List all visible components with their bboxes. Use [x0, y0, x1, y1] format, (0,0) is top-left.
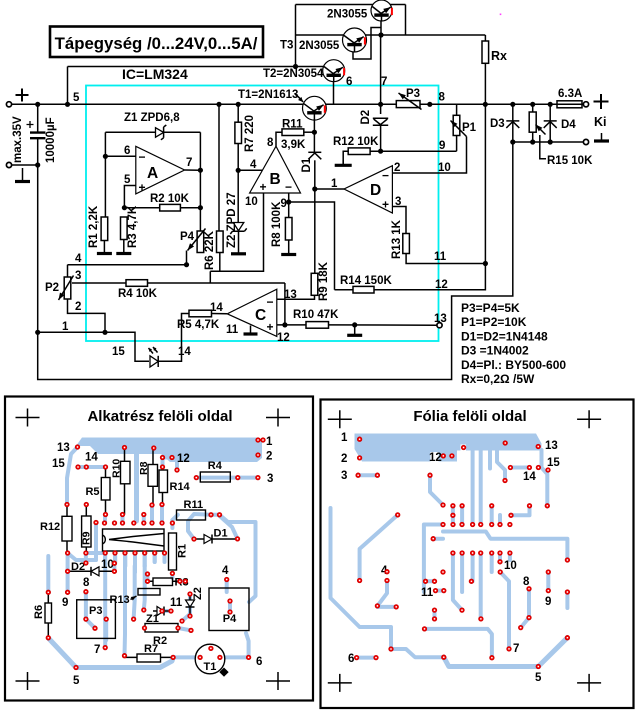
- trace: [490, 553, 494, 572]
- svg-text:1: 1: [331, 178, 338, 190]
- PCB resistor R12: [66, 505, 68, 554]
- svg-text:R2 10K: R2 10K: [150, 193, 190, 205]
- pad: [498, 522, 502, 526]
- wire: [405, 5, 407, 36]
- resistor R4 10K: [126, 280, 148, 287]
- pad: [527, 465, 531, 469]
- resistor R6 22K: [217, 231, 224, 253]
- trace: [360, 515, 398, 581]
- wire: [313, 114, 315, 152]
- node: [35, 162, 40, 167]
- pad: [132, 521, 136, 525]
- svg-text:3: 3: [267, 473, 273, 485]
- svg-text:D3 =1N4002: D3 =1N4002: [461, 344, 529, 358]
- svg-text:D: D: [370, 182, 381, 199]
- wire: [296, 66, 331, 68]
- node: [184, 262, 189, 267]
- wire: [277, 324, 306, 326]
- trace: [196, 476, 238, 480]
- svg-text:5: 5: [535, 672, 542, 684]
- pad: [198, 655, 202, 659]
- svg-text:D2: D2: [360, 110, 372, 125]
- pad: [194, 475, 198, 479]
- trace: [150, 505, 154, 523]
- wire: [315, 188, 344, 190]
- node: [312, 130, 317, 135]
- ground: [123, 240, 125, 254]
- pad: [503, 478, 507, 482]
- wire: [104, 132, 106, 217]
- svg-text:+: +: [260, 180, 267, 194]
- trace: [113, 553, 117, 563]
- zener Z2: [233, 223, 244, 231]
- wire: [37, 104, 39, 131]
- pad: [171, 655, 175, 659]
- pad: [65, 551, 69, 555]
- trace: [112, 563, 116, 571]
- svg-text:10: 10: [245, 196, 258, 208]
- svg-text:2: 2: [341, 453, 347, 465]
- pad: [546, 570, 550, 574]
- PCB resistor R5: [105, 467, 107, 515]
- pad: [256, 438, 260, 442]
- trace: [500, 572, 509, 649]
- svg-text:P1=P2=10K: P1=P2=10K: [461, 315, 527, 329]
- crosshair mark: [16, 409, 40, 427]
- pad: [103, 465, 107, 469]
- trace: [498, 515, 502, 525]
- node: [548, 139, 553, 144]
- wire: [353, 28, 381, 60]
- svg-text:+: +: [382, 198, 389, 212]
- trace: [460, 553, 464, 592]
- wire: [277, 295, 315, 299]
- node: [286, 199, 291, 204]
- pad: [451, 551, 455, 555]
- wire: [456, 136, 458, 152]
- IC LM324 boundary box (cyan): [86, 86, 439, 342]
- pad: [375, 604, 379, 608]
- PCB resistor R8: [152, 448, 154, 505]
- pad: [145, 579, 149, 583]
- ground: [250, 326, 252, 335]
- pad: [357, 437, 361, 441]
- pad: [120, 521, 124, 525]
- trace: [471, 450, 475, 525]
- trace: [84, 592, 88, 619]
- pad: [160, 502, 164, 506]
- svg-text:−: −: [139, 150, 146, 164]
- pad: [490, 551, 494, 555]
- svg-text:R10 47K: R10 47K: [293, 309, 339, 321]
- pad: [143, 551, 147, 555]
- pad: [261, 438, 265, 442]
- svg-text:R9 18K: R9 18K: [318, 261, 330, 301]
- svg-text:3,9K: 3,9K: [281, 139, 306, 151]
- svg-text:6: 6: [348, 653, 354, 665]
- trace: [471, 553, 475, 581]
- pad: [112, 561, 116, 565]
- svg-text:11: 11: [421, 587, 434, 599]
- PCB resistor R1: [169, 533, 177, 570]
- trace: [238, 476, 258, 480]
- wire: [68, 299, 106, 332]
- resistor R13 1K: [403, 234, 410, 254]
- pad: [235, 537, 239, 541]
- wire: [238, 231, 240, 251]
- pad: [76, 465, 80, 469]
- svg-text:9: 9: [62, 597, 68, 609]
- trace: [425, 629, 492, 658]
- svg-text:1: 1: [62, 321, 69, 333]
- resistor R1 2,2K: [101, 217, 108, 241]
- pad: [490, 656, 494, 660]
- pad: [441, 503, 445, 507]
- pad: [389, 647, 393, 651]
- svg-text:15: 15: [112, 346, 125, 358]
- trace: [220, 655, 249, 659]
- fuse 6.3A: [557, 101, 582, 108]
- pad: [170, 521, 174, 525]
- trace: [542, 450, 548, 506]
- pad: [441, 570, 445, 574]
- trace: [163, 456, 173, 460]
- svg-text:11: 11: [170, 597, 183, 609]
- pad: [122, 445, 126, 449]
- pad: [74, 665, 78, 669]
- trace: [182, 614, 190, 621]
- node: [427, 102, 432, 107]
- PCB resistor R3: [153, 578, 173, 586]
- svg-text:3: 3: [395, 196, 401, 208]
- pad: [65, 569, 69, 573]
- svg-text:B: B: [270, 171, 281, 188]
- svg-text:−: −: [267, 295, 274, 309]
- wire: [185, 169, 201, 171]
- pad: [178, 579, 182, 583]
- PCB resistor R11: [177, 510, 206, 520]
- trace: [451, 506, 455, 525]
- trace: [162, 609, 171, 613]
- trace: [143, 556, 147, 566]
- pad: [93, 626, 97, 630]
- svg-text:R3 4,7K: R3 4,7K: [127, 205, 139, 248]
- crosshair mark: [577, 674, 601, 692]
- svg-text:7: 7: [94, 644, 100, 656]
- node: [510, 139, 515, 144]
- wire: [38, 142, 513, 380]
- svg-text:12: 12: [429, 452, 442, 464]
- node: [198, 168, 203, 173]
- pad: [84, 590, 88, 594]
- pad: [460, 608, 464, 612]
- pad: [84, 465, 88, 469]
- trace: [103, 556, 107, 563]
- pad: [131, 617, 135, 621]
- trace: [170, 573, 174, 578]
- diode D2: [373, 118, 388, 125]
- ground: [238, 252, 240, 254]
- pad: [46, 590, 50, 594]
- pad: [508, 522, 512, 526]
- wire: [105, 131, 155, 133]
- wire: [209, 271, 211, 283]
- pad: [509, 513, 513, 517]
- potentiometer P3: [396, 101, 420, 108]
- svg-text:−: −: [285, 180, 292, 194]
- pad: [498, 551, 502, 555]
- pad: [160, 455, 164, 459]
- trace: [228, 601, 232, 612]
- svg-text:D2: D2: [71, 561, 85, 573]
- svg-text:14: 14: [178, 346, 191, 358]
- PCB transistor T1: [195, 644, 225, 674]
- wire: [512, 141, 585, 143]
- wire: [456, 104, 458, 115]
- node: [510, 102, 515, 107]
- wire: [549, 128, 551, 142]
- trace: [143, 553, 147, 566]
- svg-text:P3=P4=5K: P3=P4=5K: [461, 301, 520, 315]
- wire: [237, 104, 239, 122]
- trace: [94, 523, 98, 561]
- wire: [532, 132, 534, 142]
- svg-text:8: 8: [267, 137, 274, 149]
- trace: [67, 447, 78, 505]
- trace: [123, 571, 128, 655]
- svg-text:4: 4: [222, 565, 229, 577]
- op-amp U1C: [227, 289, 277, 336]
- pad: [209, 646, 213, 650]
- wire: [67, 265, 69, 277]
- transistor Q2 2N3055 T3: [343, 28, 367, 52]
- pad: [490, 522, 494, 526]
- pad: [450, 454, 454, 458]
- trace: [331, 508, 392, 649]
- svg-text:2: 2: [75, 301, 81, 313]
- wire: [380, 21, 382, 36]
- ground: [601, 133, 603, 141]
- svg-text:14: 14: [523, 471, 536, 483]
- svg-text:Z2: Z2: [192, 587, 204, 600]
- node: [198, 205, 203, 210]
- wire: [288, 193, 290, 218]
- svg-text:14: 14: [210, 302, 223, 314]
- trace: [377, 605, 396, 609]
- resistor R11 3,9K: [282, 129, 304, 136]
- trace: [142, 515, 146, 523]
- trace: [123, 553, 127, 571]
- resistor R5 4,7K: [189, 310, 212, 317]
- pad: [160, 521, 164, 525]
- pad: [142, 521, 146, 525]
- trace: [188, 514, 211, 539]
- pad: [507, 647, 511, 651]
- trace bottom thick (foil side): [444, 638, 568, 667]
- node: [378, 32, 383, 37]
- wire: [392, 207, 406, 234]
- svg-text:Z1 ZPD6,8: Z1 ZPD6,8: [124, 112, 180, 124]
- pad: [479, 551, 483, 555]
- trace: [163, 556, 167, 562]
- trace: [178, 628, 191, 630]
- wire: [549, 104, 551, 128]
- trace: [436, 589, 444, 593]
- trace: [153, 556, 157, 562]
- pad: [75, 445, 79, 449]
- wire: [289, 202, 335, 290]
- potentiometer P1: [453, 115, 460, 135]
- pad: [442, 655, 446, 659]
- copper pour top (foil): [355, 434, 542, 462]
- ground: [103, 241, 105, 254]
- pad: [428, 473, 432, 477]
- pad: [142, 608, 146, 612]
- ground: [22, 168, 24, 182]
- wire: [380, 125, 382, 151]
- pad: [527, 504, 531, 508]
- PCB pot P4: [209, 588, 249, 631]
- svg-text:13: 13: [57, 442, 70, 454]
- svg-text:+: +: [267, 320, 274, 334]
- pad: [565, 636, 569, 640]
- svg-text:R12 10K: R12 10K: [333, 136, 379, 148]
- node: [103, 154, 108, 159]
- op-amp U1A: [136, 146, 185, 194]
- svg-text:R5: R5: [85, 486, 99, 498]
- trace: [161, 458, 165, 468]
- pad: [142, 512, 146, 516]
- node: [312, 186, 317, 191]
- pad: [374, 655, 378, 659]
- trace: [220, 516, 238, 539]
- pad: [46, 636, 50, 640]
- copper pour top: [76, 438, 262, 463]
- pad: [527, 615, 531, 619]
- pad: [150, 521, 154, 525]
- svg-text:D1=D2=1N4148: D1=D2=1N4148: [461, 329, 548, 343]
- trace: [173, 454, 177, 470]
- pad: [84, 502, 88, 506]
- wire: [186, 251, 188, 265]
- pad: [508, 465, 512, 469]
- crosshair mark: [266, 672, 290, 690]
- potentiometer P4: [197, 231, 204, 253]
- wire: [210, 193, 263, 271]
- pad: [354, 655, 358, 659]
- node: [35, 330, 40, 335]
- pad: [192, 537, 196, 541]
- wire: [38, 332, 149, 361]
- svg-text:T1=2N1613: T1=2N1613: [238, 89, 298, 101]
- svg-text:11: 11: [434, 251, 447, 263]
- pad: [225, 577, 229, 581]
- pad: [94, 520, 98, 524]
- trace: [188, 596, 192, 614]
- terminal in-: [6, 162, 11, 167]
- svg-text:Rx=0,2Ω /5W: Rx=0,2Ω /5W: [461, 372, 535, 386]
- pad: [175, 468, 179, 472]
- op-amp U1D: [344, 166, 392, 213]
- potentiometer P2: [64, 277, 71, 299]
- pad: [188, 592, 192, 596]
- pad: [432, 579, 436, 583]
- svg-text:C: C: [255, 307, 266, 324]
- pad: [84, 561, 88, 565]
- wire: [37, 139, 39, 332]
- svg-text:T2=2N3054: T2=2N3054: [263, 68, 324, 80]
- trace: [173, 655, 200, 659]
- pad: [422, 627, 426, 631]
- trace: [103, 553, 107, 648]
- trace: [153, 553, 157, 562]
- trace: [211, 513, 220, 517]
- svg-text:3: 3: [75, 270, 81, 282]
- svg-text:IC=LM324: IC=LM324: [122, 66, 188, 82]
- pad: [170, 455, 174, 459]
- trace: [511, 506, 530, 516]
- svg-text:R9: R9: [81, 531, 93, 545]
- pad: [189, 628, 193, 632]
- node: [35, 102, 40, 107]
- wire: [164, 131, 200, 133]
- svg-text:1: 1: [341, 432, 348, 444]
- node: [293, 64, 298, 69]
- pad: [470, 522, 474, 526]
- svg-text:R14: R14: [170, 481, 191, 493]
- trace: [479, 450, 483, 525]
- pad: [357, 578, 361, 582]
- svg-text:max.35V: max.35V: [12, 116, 24, 163]
- pad: [375, 473, 379, 477]
- trace: [377, 581, 387, 606]
- PCB resistor R2: [145, 624, 178, 633]
- pad: [113, 551, 117, 555]
- pad: [432, 608, 436, 612]
- trace: [225, 580, 229, 593]
- wire: [329, 324, 438, 326]
- pad: [394, 605, 398, 609]
- trace: [453, 553, 462, 610]
- svg-text:10000µF: 10000µF: [45, 117, 57, 163]
- trace: [113, 556, 117, 563]
- wire: [380, 35, 382, 114]
- pad: [546, 588, 550, 592]
- svg-text:15: 15: [52, 458, 65, 470]
- wire: [237, 144, 239, 223]
- pad: [236, 475, 240, 479]
- terminal 13: [437, 323, 442, 328]
- pad: [498, 560, 502, 564]
- terminal Ki-: [583, 139, 588, 144]
- pad: [150, 503, 154, 507]
- svg-text:1: 1: [266, 436, 273, 448]
- trace: [498, 553, 502, 562]
- trace: [220, 515, 256, 602]
- svg-text:R7 220: R7 220: [244, 115, 256, 152]
- pad: [188, 614, 192, 618]
- svg-text:P4: P4: [223, 613, 237, 625]
- trace: [68, 553, 96, 560]
- trace: [426, 579, 435, 583]
- PCB resistor R9: [85, 505, 87, 554]
- op-amp U1B: [250, 146, 301, 193]
- svg-text:R5 4,7K: R5 4,7K: [177, 319, 220, 331]
- trace: [358, 473, 377, 477]
- wire: [9, 103, 584, 105]
- resistor R10 47K: [306, 322, 329, 329]
- trace: [508, 553, 512, 560]
